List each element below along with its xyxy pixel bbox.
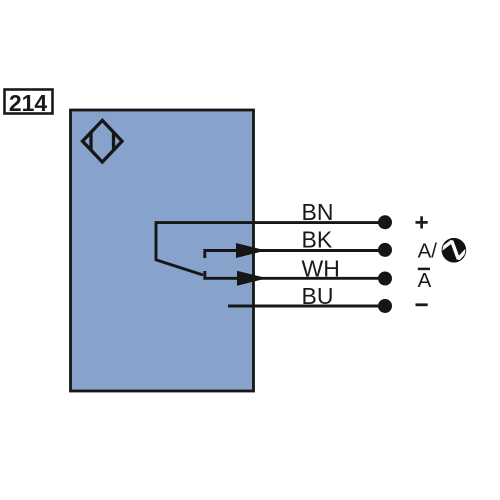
switch lever bbox=[155, 260, 203, 276]
terminal dot BU bbox=[378, 299, 392, 313]
contact tick BK bbox=[205, 251, 385, 259]
output A-bar bbox=[418, 269, 432, 292]
wire BU bbox=[228, 305, 385, 308]
sensor body bbox=[71, 110, 254, 391]
arrow WH bbox=[237, 271, 267, 286]
callout box 214 bbox=[5, 90, 53, 117]
svg-text:WH: WH bbox=[302, 255, 340, 281]
svg-text:A/: A/ bbox=[418, 239, 438, 262]
svg-text:BN: BN bbox=[302, 199, 334, 225]
svg-text:BK: BK bbox=[302, 227, 333, 253]
terminal dot BK bbox=[378, 243, 392, 257]
polarity plus bbox=[416, 216, 428, 228]
svg-text:BU: BU bbox=[302, 283, 334, 309]
svg-text:214: 214 bbox=[9, 90, 48, 116]
svg-text:A: A bbox=[418, 269, 432, 292]
wire BN bbox=[156, 223, 385, 260]
terminal dot WH bbox=[378, 272, 392, 286]
AC icon bbox=[441, 238, 467, 263]
terminal dot BN bbox=[378, 215, 392, 229]
sensor symbol rhombus bbox=[83, 120, 123, 162]
arrow BK bbox=[236, 243, 266, 258]
polarity minus bbox=[416, 303, 428, 306]
contact tick WH bbox=[205, 271, 385, 278]
